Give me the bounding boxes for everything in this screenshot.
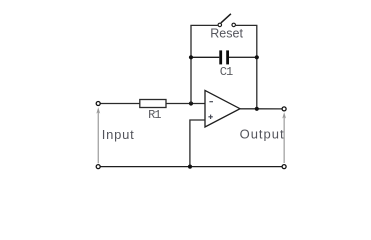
terminal: bottom right (open circle) xyxy=(282,165,286,169)
wire: feedback loop left vertical xyxy=(190,25,192,103)
wire: feedback loop right vertical xyxy=(256,25,258,108)
svg-text:Input: Input xyxy=(102,127,135,142)
svg-text:Reset: Reset xyxy=(210,26,243,40)
svg-text:C1: C1 xyxy=(220,65,233,79)
svg-text:R1: R1 xyxy=(148,108,161,122)
op-amp U1 xyxy=(205,90,240,127)
wire: top left to reset switch xyxy=(190,24,217,26)
wire: bottom rail xyxy=(100,166,282,168)
terminal: bottom left (open circle) xyxy=(96,165,100,169)
node: cap branch left junction xyxy=(189,55,193,59)
op-amp minus sign xyxy=(209,101,213,103)
wire: input terminal to resistor R1 xyxy=(100,103,140,105)
op-amp plus sign xyxy=(208,115,212,119)
node: cap branch right junction xyxy=(255,55,259,59)
output port arrow (grey) xyxy=(282,112,286,163)
terminal: output (open circle) xyxy=(282,107,286,111)
wire: resistor R1 to op-amp inverting input xyxy=(166,103,205,105)
wire: capacitor branch right xyxy=(229,56,257,58)
svg-text:Output: Output xyxy=(240,127,285,142)
input port arrow (grey) xyxy=(96,107,100,163)
resistor R1 xyxy=(140,100,166,108)
wire: capacitor branch left xyxy=(191,56,219,58)
terminal: input (open circle) xyxy=(96,102,100,106)
wire: reset switch to top right corner xyxy=(236,24,258,26)
node: bottom rail junction xyxy=(188,165,192,169)
node: output feedback junction xyxy=(255,107,259,111)
switch S1 (Reset, open) xyxy=(218,14,235,27)
capacitor C1 xyxy=(219,50,222,64)
node: junction of R1 output and feedback (inverting input) xyxy=(189,101,193,105)
wire: op-amp output xyxy=(240,108,282,110)
wire: non-inverting input L-shape from bottom rail xyxy=(190,120,205,167)
